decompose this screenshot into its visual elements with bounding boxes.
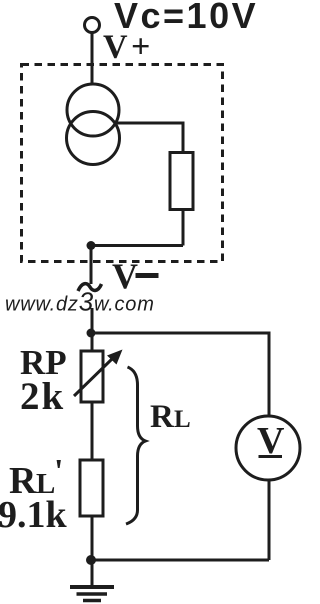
- svg-text:9.1k: 9.1k: [0, 494, 68, 536]
- potentiometer RP arrow: [74, 358, 113, 396]
- wire RP to RL': [91, 402, 94, 460]
- svg-text:2k: 2k: [20, 375, 65, 418]
- resistor internal (unlabeled): [170, 153, 193, 210]
- wire bottom rail inside box: [91, 244, 183, 247]
- break squiggle: [78, 284, 102, 291]
- wire RL' to ground rail: [91, 516, 94, 585]
- wire resistor to bottom rail: [182, 210, 185, 246]
- svg-text:R: R: [150, 399, 175, 435]
- wire terminal to current source: [91, 33, 94, 86]
- wire current source to internal resistor: [117, 123, 183, 153]
- svg-text:V: V: [112, 256, 138, 296]
- bottom rail wire: [91, 559, 269, 562]
- wire voltmeter to bottom rail: [268, 480, 271, 560]
- potentiometer RP body: [81, 351, 103, 402]
- ground: [70, 587, 114, 601]
- resistor RL' body: [80, 460, 103, 516]
- junction dot inside box: [87, 241, 96, 250]
- junction dot bottom: [86, 555, 96, 565]
- svg-text:V+: V+: [103, 29, 154, 66]
- svg-text:': ': [54, 453, 63, 490]
- svg-text:L: L: [174, 406, 191, 433]
- minus of V-: [136, 273, 159, 278]
- current source U1 (two overlapping circles): [67, 84, 120, 165]
- junction dot at top of RP: [87, 329, 96, 338]
- wire junction down through box edge: [90, 246, 93, 285]
- wire top rail to voltmeter branch: [91, 333, 269, 416]
- voltmeter underline: [259, 455, 283, 458]
- voltmeter V: [236, 416, 300, 480]
- terminal Vc (open circle): [85, 18, 100, 33]
- wire junction to RP: [91, 333, 94, 351]
- wire resuming below break: [91, 308, 94, 333]
- brace for RL: [126, 367, 146, 524]
- dashed enclosure box: [22, 65, 223, 262]
